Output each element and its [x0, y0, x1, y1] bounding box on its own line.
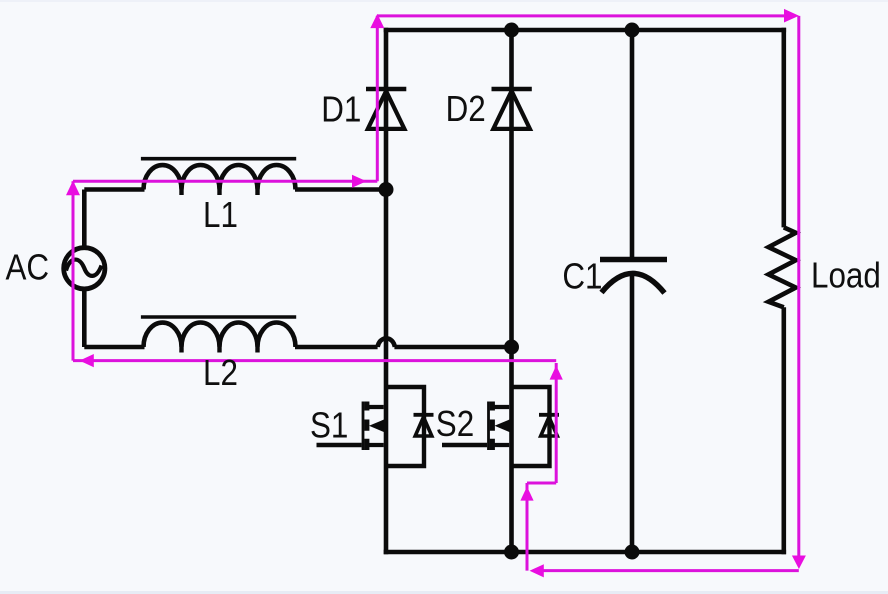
svg-text:S2: S2	[436, 404, 474, 445]
svg-text:L1: L1	[203, 195, 238, 236]
svg-text:S1: S1	[310, 405, 348, 446]
svg-text:Load: Load	[811, 255, 881, 296]
svg-text:D1: D1	[321, 89, 361, 130]
svg-text:L2: L2	[203, 353, 238, 394]
svg-text:D2: D2	[446, 89, 486, 130]
svg-text:C1: C1	[562, 256, 602, 297]
svg-text:AC: AC	[6, 247, 50, 288]
